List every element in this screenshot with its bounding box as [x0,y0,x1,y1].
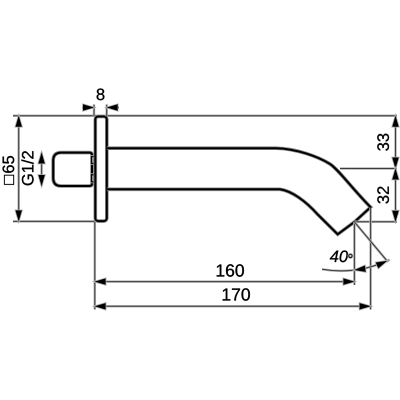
extension line tube axis (33/32 split) [340,167,397,170]
arc 40 degrees [322,260,390,271]
threaded nipple G1/2 [53,153,92,186]
label 170 [223,288,250,300]
label 33 [377,134,389,151]
extension line 8 left [93,105,96,117]
arrow 8 left [83,104,94,110]
leader line 40 degrees [354,222,388,262]
dimension line 33 and 32 [394,116,397,222]
wall flange plate [95,117,107,222]
extension line flange bottom [13,220,95,223]
label G1/2 [21,151,33,185]
label 160 [217,264,244,276]
extension line 160 right (tip mid corner) [353,222,356,285]
dimension line for 65 square [17,116,20,222]
nipple neck tab top [92,157,96,164]
arrow 32 top [392,169,398,180]
label square 65 [3,156,15,185]
arrow G12 top [38,153,44,164]
dimension line for G1/2 [40,153,43,187]
arrow 160 right [343,278,354,284]
dimension line 8 right part [107,106,119,109]
arrow 32 bottom [392,211,398,222]
arrow 160 left [95,278,106,284]
arrow 8 right [107,104,118,110]
extension line 160/170 left (wall face) [94,222,97,310]
arrow G12 bottom [38,175,44,186]
arrow arc left [354,266,365,272]
arrow 170 left [95,303,106,309]
extension line 170 right (tip top corner) [369,208,372,310]
arrow arc right [376,261,387,268]
label 32 [377,187,389,204]
arrow 65 top [16,116,22,127]
arrow 170 right [360,303,371,309]
dimension line 8 left part [82,106,94,109]
label 40 degrees [330,251,348,263]
arrow 33 bottom [392,158,398,169]
dimension line 170 [95,305,371,308]
extension line top (flange top / 33 dim datum) [13,114,397,117]
extension line spout tip horizontal [354,220,397,223]
arrow 33 top [392,116,398,127]
dimension line 160 [95,280,355,283]
arrow 65 bottom [16,210,22,221]
label 8 [97,89,105,101]
extension line 8 right [105,105,108,117]
spout body outline [107,148,371,234]
nipple neck tab bottom [92,175,96,182]
degree sign [349,254,352,257]
